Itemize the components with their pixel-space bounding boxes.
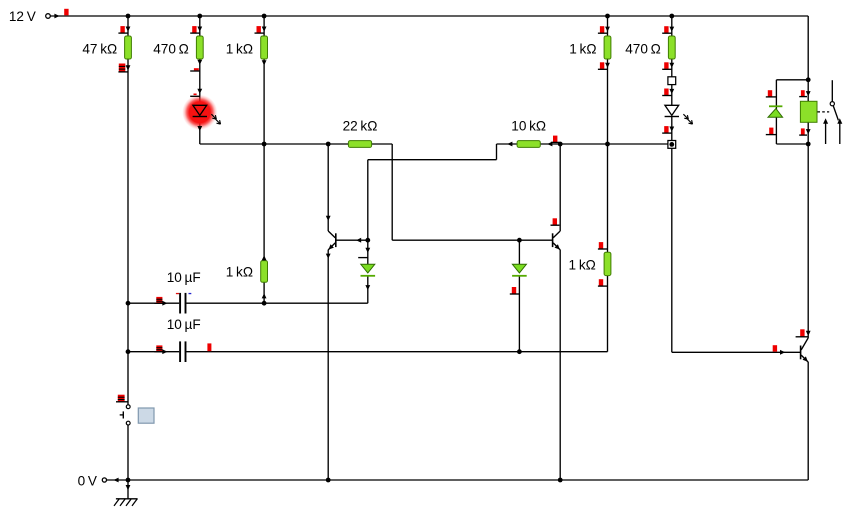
svg-text:47 kΩ: 47 kΩ — [82, 41, 117, 56]
svg-text:22 kΩ: 22 kΩ — [343, 119, 378, 134]
svg-text:1 kΩ: 1 kΩ — [569, 41, 596, 56]
svg-text:10 kΩ: 10 kΩ — [511, 119, 546, 134]
svg-text:1 kΩ: 1 kΩ — [569, 258, 596, 273]
svg-text:1 kΩ: 1 kΩ — [226, 41, 253, 56]
svg-text:470 Ω: 470 Ω — [625, 41, 661, 56]
svg-text:470 Ω: 470 Ω — [153, 41, 189, 56]
svg-text:10 µF: 10 µF — [167, 270, 201, 285]
svg-text:10 µF: 10 µF — [167, 317, 201, 332]
svg-text:12 V: 12 V — [9, 9, 36, 24]
svg-text:1 kΩ: 1 kΩ — [226, 265, 253, 280]
svg-text:0 V: 0 V — [78, 474, 97, 489]
